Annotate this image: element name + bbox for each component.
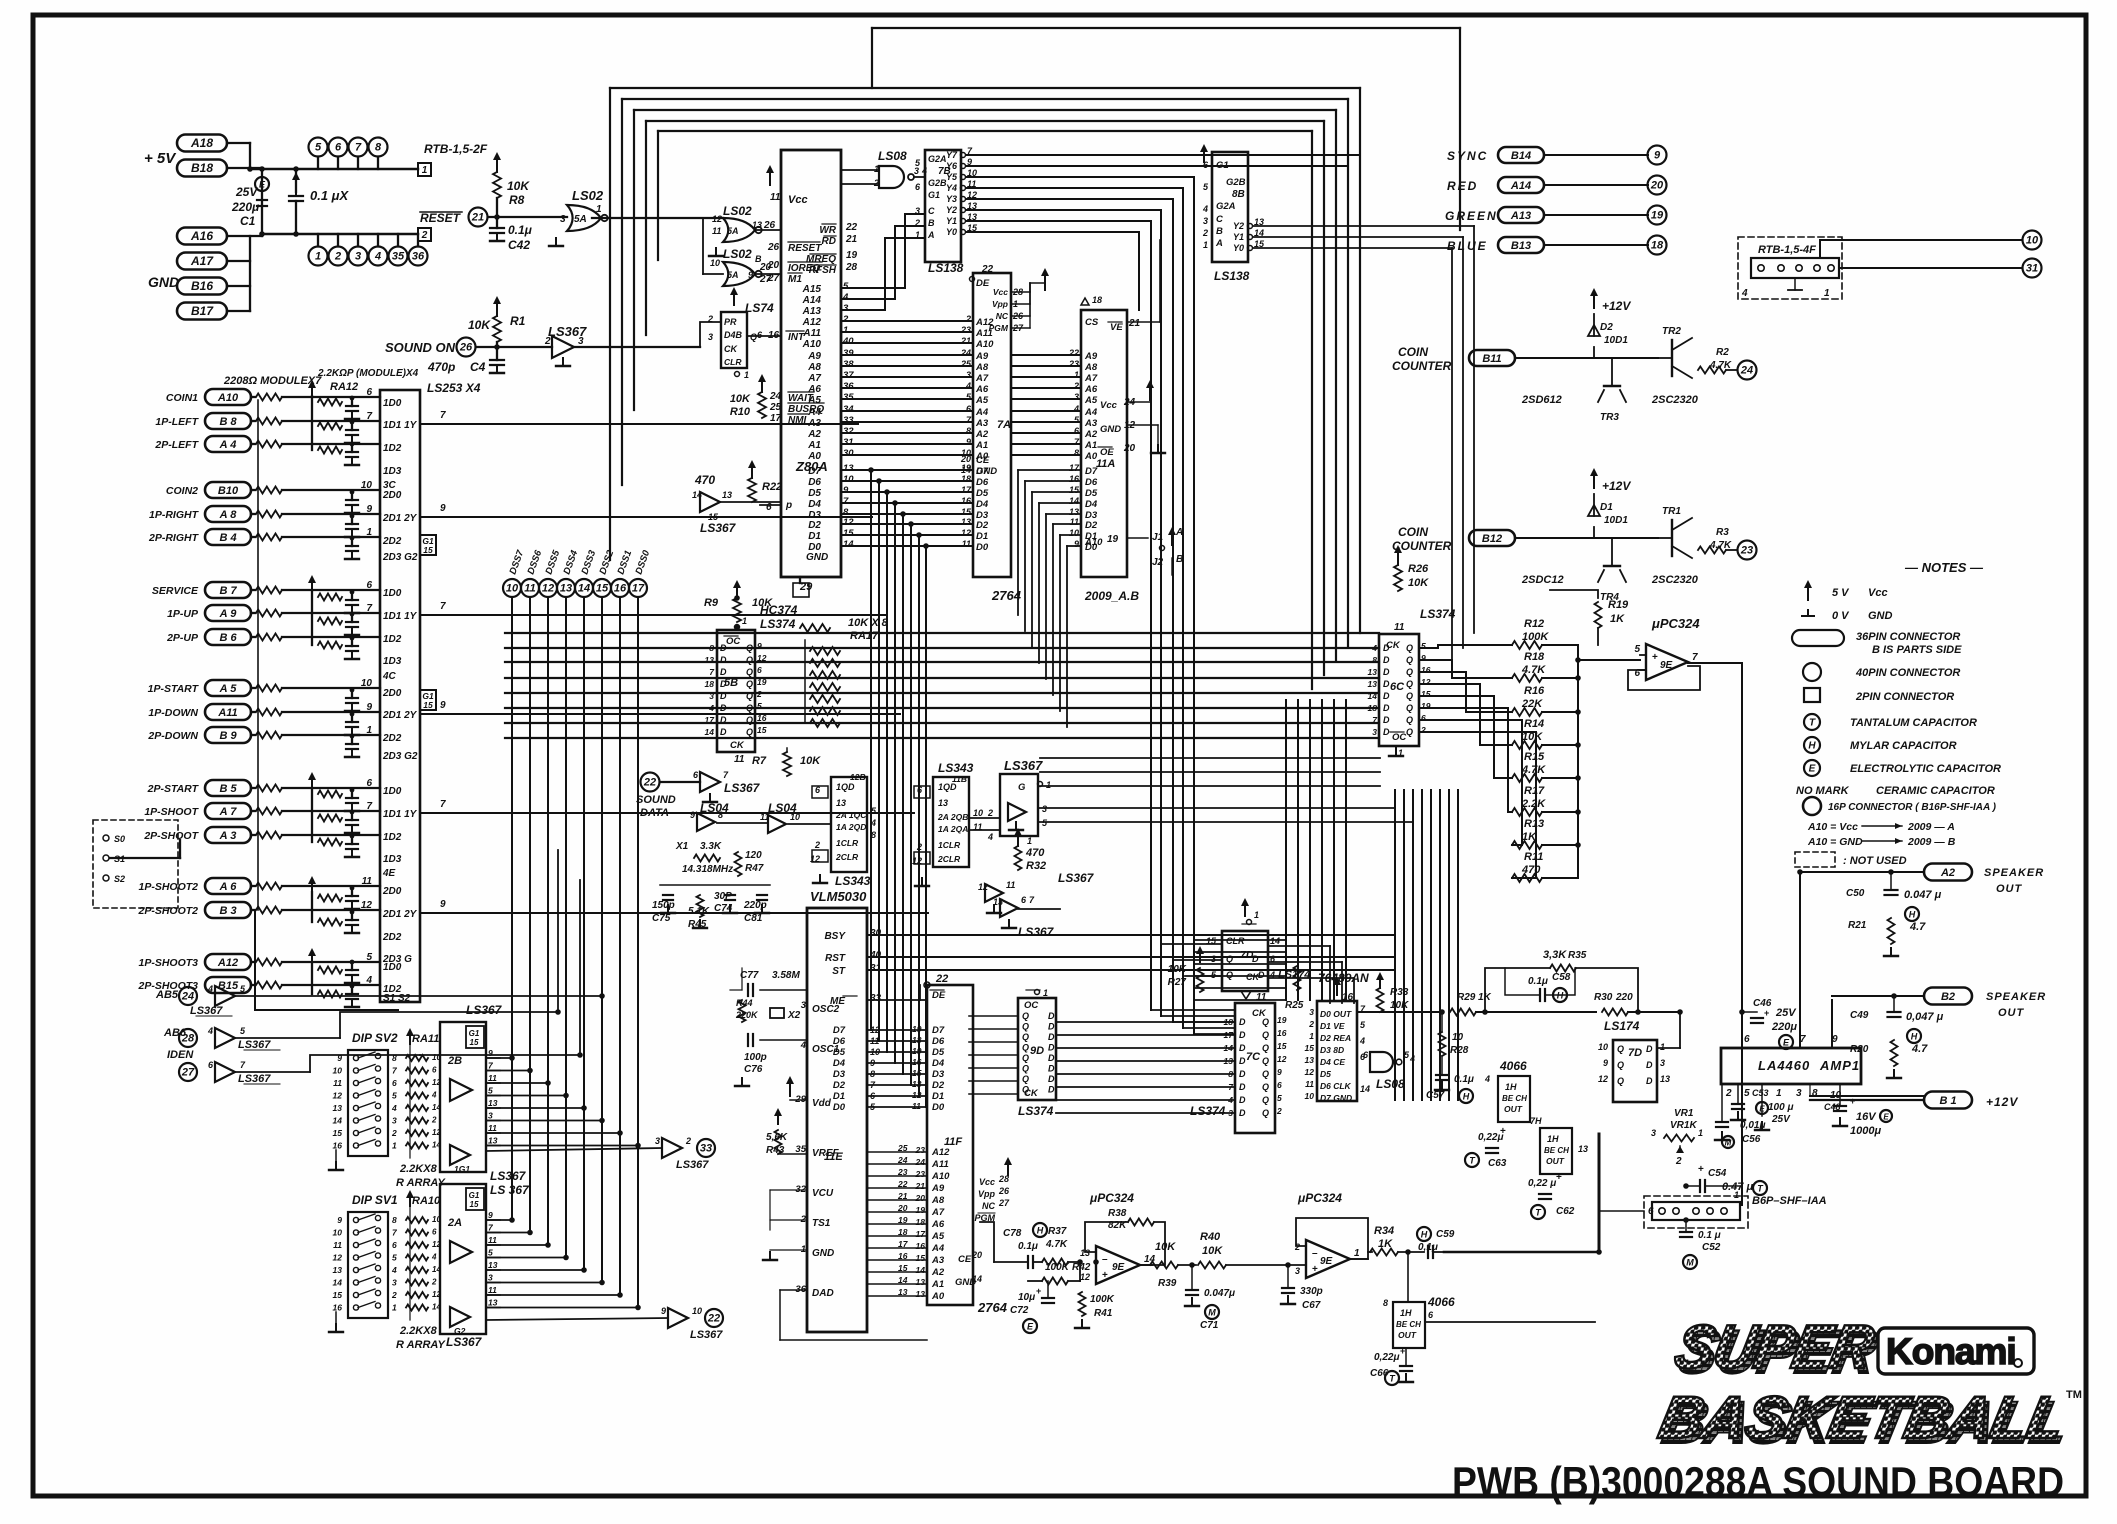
svg-text:21: 21 [845, 234, 858, 245]
svg-text:R15: R15 [1524, 751, 1545, 763]
svg-text:RD: RD [822, 236, 836, 247]
svg-text:R8: R8 [509, 193, 525, 207]
svg-text:20: 20 [915, 1193, 926, 1203]
svg-text:GND: GND [1100, 424, 1121, 435]
svg-text:6: 6 [1277, 1080, 1282, 1090]
svg-text:LS343: LS343 [835, 874, 871, 888]
svg-text:1000μ: 1000μ [1850, 1125, 1881, 1137]
svg-text:19: 19 [1107, 534, 1119, 545]
svg-text:A8: A8 [931, 1195, 945, 1206]
svg-text:8: 8 [1372, 655, 1377, 665]
svg-text:12B: 12B [850, 772, 866, 782]
svg-text:E: E [1759, 1105, 1765, 1114]
svg-text:G2B: G2B [1226, 177, 1246, 188]
svg-text:16: 16 [757, 713, 767, 723]
svg-text:TS1: TS1 [812, 1218, 831, 1229]
svg-text:36PIN CONNECTOR: 36PIN CONNECTOR [1856, 631, 1960, 643]
svg-text:C77: C77 [740, 970, 759, 981]
svg-text:Y4: Y4 [946, 183, 957, 193]
svg-text:7: 7 [355, 142, 362, 154]
svg-text:COIN1: COIN1 [166, 392, 198, 404]
svg-text:10K: 10K [1408, 577, 1429, 589]
svg-text:28: 28 [181, 1033, 195, 1045]
svg-text:B 5: B 5 [219, 783, 237, 795]
svg-text:7D: 7D [1628, 1047, 1642, 1059]
svg-text:7: 7 [440, 410, 446, 421]
svg-text:15: 15 [916, 1253, 926, 1263]
svg-text:8: 8 [709, 643, 714, 653]
svg-text:D5: D5 [1085, 488, 1098, 499]
svg-text:13: 13 [488, 1098, 498, 1108]
svg-text:18: 18 [1368, 703, 1378, 713]
svg-text:Vpp: Vpp [992, 299, 1008, 309]
svg-text:2: 2 [685, 1136, 691, 1146]
svg-text:3: 3 [966, 370, 971, 380]
svg-text:13: 13 [1578, 1144, 1588, 1154]
svg-text:C49: C49 [1850, 1010, 1869, 1021]
svg-text:Q: Q [746, 727, 753, 737]
svg-text:5A: 5A [574, 214, 587, 225]
svg-text:23: 23 [897, 1167, 908, 1177]
svg-text:150p: 150p [652, 900, 675, 911]
svg-text:D: D [1239, 1056, 1246, 1066]
svg-text:13: 13 [722, 490, 732, 500]
svg-text:— NOTES —: — NOTES — [1904, 560, 1984, 575]
svg-text:1: 1 [1776, 1088, 1782, 1099]
svg-text:G: G [1018, 782, 1026, 793]
svg-text:A0: A0 [1084, 451, 1098, 462]
svg-text:2: 2 [1276, 1106, 1282, 1116]
svg-text:A12: A12 [975, 317, 994, 328]
svg-text:0.1μ: 0.1μ [1018, 1241, 1038, 1252]
svg-text:+: + [1312, 1264, 1318, 1275]
svg-text:1P-RIGHT: 1P-RIGHT [149, 509, 200, 521]
svg-text:A10: A10 [802, 339, 822, 350]
svg-text:24: 24 [1740, 365, 1753, 377]
svg-text:C42: C42 [508, 238, 530, 252]
svg-text:D: D [720, 691, 727, 701]
svg-text:4: 4 [431, 1253, 437, 1262]
svg-text:3: 3 [1295, 1266, 1300, 1276]
svg-text:14: 14 [705, 727, 715, 737]
svg-text:4: 4 [1073, 404, 1079, 414]
svg-text:5: 5 [843, 281, 849, 292]
svg-text:D6: D6 [976, 477, 989, 488]
svg-text:25V: 25V [1775, 1007, 1797, 1019]
svg-text:D5: D5 [932, 1047, 945, 1058]
svg-text:E: E [1809, 764, 1816, 775]
svg-text:4: 4 [431, 1091, 437, 1100]
svg-text:LS367: LS367 [446, 1335, 483, 1349]
svg-text:8: 8 [1812, 1088, 1818, 1099]
svg-text:15: 15 [333, 1128, 343, 1138]
svg-text:–: – [1102, 1254, 1108, 1265]
svg-text:D2: D2 [833, 1080, 846, 1091]
svg-text:LS367: LS367 [1018, 925, 1055, 939]
svg-text:10: 10 [790, 812, 800, 822]
svg-text:0,22 μ: 0,22 μ [1528, 1178, 1556, 1189]
svg-text:COIN2: COIN2 [166, 485, 198, 497]
svg-text:TR2: TR2 [1662, 326, 1681, 337]
svg-text:9: 9 [843, 485, 849, 496]
svg-text:LS374: LS374 [1420, 607, 1456, 621]
svg-text:C: C [1216, 214, 1223, 225]
svg-text:10D1: 10D1 [1604, 515, 1628, 526]
svg-text:9: 9 [488, 1048, 493, 1058]
svg-text:D: D [1383, 679, 1390, 689]
svg-text:1: 1 [392, 1141, 397, 1151]
svg-text:CK: CK [730, 740, 745, 751]
svg-text:9: 9 [337, 1053, 342, 1063]
svg-text:C52: C52 [1702, 1242, 1721, 1253]
svg-text:4: 4 [1741, 288, 1748, 299]
svg-text:15: 15 [1206, 936, 1217, 946]
svg-text:5: 5 [757, 701, 762, 711]
svg-text:40: 40 [869, 950, 882, 961]
svg-text:15: 15 [1305, 1043, 1315, 1053]
svg-text:2SD612: 2SD612 [1521, 394, 1562, 406]
svg-text:A 9: A 9 [219, 608, 238, 620]
svg-text:R34: R34 [1374, 1225, 1394, 1237]
svg-text:11: 11 [488, 1073, 497, 1083]
svg-text:A8: A8 [807, 362, 821, 373]
svg-text:A14: A14 [802, 295, 822, 306]
svg-text:OC: OC [1024, 1000, 1038, 1011]
svg-text:C72: C72 [1010, 1305, 1029, 1316]
svg-text:D2: D2 [976, 520, 989, 531]
svg-text:CK: CK [1024, 1088, 1039, 1099]
svg-text:D1: D1 [1600, 502, 1613, 513]
svg-text:LS138: LS138 [928, 261, 964, 275]
svg-text:12: 12 [542, 583, 554, 595]
svg-text:10: 10 [2026, 235, 2039, 247]
svg-text:16: 16 [614, 583, 627, 595]
svg-text:4E: 4E [382, 868, 396, 879]
svg-text:12: 12 [361, 900, 373, 911]
svg-text:Vcc: Vcc [979, 1177, 995, 1187]
svg-text:G1: G1 [469, 1191, 480, 1200]
svg-text:18: 18 [916, 1217, 926, 1227]
svg-text:D: D [1239, 1069, 1246, 1079]
svg-text:2: 2 [965, 314, 971, 324]
svg-text:R9: R9 [704, 597, 719, 609]
svg-text:16: 16 [898, 1251, 908, 1261]
svg-text:10: 10 [361, 678, 373, 689]
svg-text:Vpp: Vpp [978, 1189, 996, 1199]
svg-text:14: 14 [578, 583, 590, 595]
svg-text:B IS PARTS SIDE: B IS PARTS SIDE [1872, 644, 1962, 656]
svg-text:D0: D0 [976, 542, 989, 553]
svg-text:1D0: 1D0 [383, 398, 402, 409]
svg-text:CK: CK [724, 344, 738, 354]
svg-text:A14: A14 [1510, 180, 1531, 192]
svg-text:9: 9 [440, 503, 446, 514]
svg-text:13: 13 [916, 1277, 926, 1287]
svg-text:1A 2QD: 1A 2QD [836, 822, 866, 832]
svg-text:A11: A11 [975, 328, 993, 339]
svg-text:1CLR: 1CLR [836, 838, 859, 848]
svg-text:9: 9 [966, 437, 971, 447]
svg-text:470p: 470p [427, 360, 455, 374]
svg-text:D: D [1383, 643, 1390, 653]
svg-text:2D2: 2D2 [382, 733, 402, 744]
svg-text:B 1: B 1 [1939, 1095, 1956, 1107]
svg-text:10D1: 10D1 [1604, 335, 1628, 346]
svg-text:22: 22 [1068, 348, 1079, 358]
svg-text:11: 11 [770, 192, 781, 203]
svg-text:D1: D1 [932, 1091, 944, 1102]
svg-text:AMP1: AMP1 [1819, 1058, 1860, 1073]
svg-text:9: 9 [440, 700, 446, 711]
svg-text:2SDC12: 2SDC12 [1521, 574, 1564, 586]
svg-text:470: 470 [1025, 847, 1045, 859]
svg-text:D6 CLK: D6 CLK [1320, 1081, 1352, 1091]
svg-text:D7: D7 [976, 466, 989, 477]
svg-text:15: 15 [898, 1263, 908, 1273]
svg-text:1: 1 [1698, 1128, 1703, 1138]
svg-text:NC: NC [996, 311, 1009, 321]
svg-text:PR: PR [724, 317, 737, 327]
svg-text:IDEN: IDEN [167, 1049, 194, 1061]
svg-text:9: 9 [366, 702, 372, 713]
svg-text:GREEN: GREEN [1445, 209, 1498, 223]
svg-text:20: 20 [1650, 180, 1664, 192]
svg-text:C59: C59 [1436, 1229, 1455, 1240]
svg-text:+12V: +12V [1602, 299, 1631, 313]
svg-text:4: 4 [365, 975, 372, 986]
svg-text:10: 10 [361, 480, 373, 491]
svg-text:DAD: DAD [812, 1288, 834, 1299]
svg-text:BSY: BSY [824, 931, 846, 942]
svg-text:BE CH: BE CH [1502, 1094, 1527, 1103]
svg-text:+12V: +12V [1602, 479, 1631, 493]
svg-text:D7 GND: D7 GND [1320, 1093, 1352, 1103]
svg-text:A12: A12 [931, 1147, 950, 1158]
svg-text:9E: 9E [1320, 1256, 1333, 1267]
svg-text:GND: GND [1868, 610, 1893, 622]
svg-text:B: B [928, 218, 935, 228]
svg-text:D: D [720, 727, 727, 737]
svg-text:14: 14 [972, 1274, 982, 1284]
svg-text:μPC324: μPC324 [1089, 1191, 1134, 1205]
svg-text:2SC2320: 2SC2320 [1651, 574, 1699, 586]
svg-text:5: 5 [1744, 1088, 1750, 1099]
svg-text:VR1K: VR1K [1670, 1120, 1697, 1131]
svg-text:2D1 2Y: 2D1 2Y [382, 909, 418, 920]
svg-text:15: 15 [596, 583, 609, 595]
svg-text:2D1 2Y: 2D1 2Y [382, 513, 418, 524]
svg-text:RTB-1,5-2F: RTB-1,5-2F [424, 142, 488, 156]
svg-text:24: 24 [915, 1157, 926, 1167]
svg-text:Q: Q [746, 703, 753, 713]
svg-text:2009 — B: 2009 — B [1907, 836, 1956, 848]
svg-text:A10: A10 [217, 392, 239, 404]
svg-text:8: 8 [718, 810, 723, 820]
svg-text:5: 5 [1277, 1093, 1282, 1103]
svg-text:120: 120 [745, 850, 762, 861]
svg-text:5: 5 [488, 1248, 493, 1258]
svg-text:2A: 2A [447, 1217, 462, 1229]
svg-text:4: 4 [391, 1265, 397, 1275]
svg-text:14: 14 [692, 490, 702, 500]
svg-text:1D3: 1D3 [383, 854, 402, 865]
svg-text:R13: R13 [1524, 818, 1544, 830]
svg-text:Q: Q [1262, 1043, 1269, 1053]
svg-text:A3: A3 [807, 418, 821, 429]
svg-text:0.1μ: 0.1μ [1528, 976, 1548, 987]
svg-text:13: 13 [488, 1136, 498, 1146]
svg-text:13: 13 [488, 1260, 498, 1270]
svg-text:R16: R16 [1524, 685, 1545, 697]
svg-text:D: D [1646, 1060, 1653, 1070]
svg-text:6: 6 [1421, 713, 1426, 723]
svg-text:10K: 10K [507, 179, 530, 193]
svg-text:33: 33 [870, 993, 882, 1004]
svg-text:12: 12 [978, 882, 988, 892]
svg-text:100K: 100K [1090, 1294, 1115, 1305]
svg-text:9: 9 [748, 270, 753, 280]
svg-text:D: D [1239, 1108, 1246, 1118]
svg-text:2: 2 [756, 689, 762, 699]
svg-text:9D: 9D [1030, 1045, 1044, 1057]
svg-text:Q: Q [1262, 1095, 1269, 1105]
svg-text:OUT: OUT [1398, 1330, 1417, 1340]
svg-text:A 6: A 6 [219, 881, 238, 893]
svg-text:1: 1 [1043, 988, 1048, 998]
svg-text:A5: A5 [975, 395, 989, 406]
svg-text:Q: Q [1262, 1030, 1269, 1040]
svg-text:D: D [1383, 667, 1390, 677]
svg-text:14: 14 [843, 539, 854, 550]
svg-text:0 V: 0 V [1832, 610, 1850, 622]
svg-text:4: 4 [1409, 1054, 1415, 1064]
svg-text:9: 9 [690, 810, 695, 820]
svg-text:NMI: NMI [788, 415, 807, 426]
svg-text:13: 13 [560, 583, 572, 595]
svg-text:17: 17 [1069, 463, 1080, 473]
svg-text:10: 10 [1305, 1091, 1315, 1101]
svg-text:3: 3 [560, 214, 566, 225]
svg-text:2208Ω MODULEX7: 2208Ω MODULEX7 [223, 375, 322, 387]
svg-text:13: 13 [488, 1298, 498, 1308]
svg-text:Q: Q [1617, 1060, 1624, 1070]
svg-text:Q: Q [1262, 1108, 1269, 1118]
svg-text:10: 10 [1452, 1032, 1464, 1043]
svg-text:2D0: 2D0 [382, 688, 402, 699]
svg-text:A12: A12 [802, 317, 822, 328]
svg-text:LS367: LS367 [1058, 871, 1095, 885]
svg-text:10K: 10K [1155, 1241, 1176, 1253]
svg-text:OSC2: OSC2 [812, 1004, 840, 1015]
svg-text:6: 6 [366, 778, 372, 789]
svg-text:21: 21 [1128, 318, 1141, 329]
svg-text:12: 12 [1277, 1054, 1287, 1064]
svg-text:19: 19 [912, 1024, 922, 1034]
svg-text:11: 11 [734, 754, 745, 765]
svg-text:1H: 1H [1400, 1308, 1412, 1318]
svg-text:Q: Q [1406, 715, 1413, 725]
svg-text:LS02: LS02 [723, 247, 752, 261]
svg-text:17: 17 [916, 1229, 927, 1239]
svg-text:+ 5V: + 5V [144, 150, 177, 167]
svg-text:D: D [1048, 1053, 1055, 1063]
svg-text:TANTALUM CAPACITOR: TANTALUM CAPACITOR [1850, 717, 1977, 729]
svg-text:3: 3 [1211, 954, 1216, 964]
svg-text:1K: 1K [1610, 613, 1625, 625]
svg-text:19: 19 [757, 677, 767, 687]
svg-text:D: D [1383, 655, 1390, 665]
svg-text:3: 3 [708, 332, 713, 342]
svg-text:D6: D6 [1085, 477, 1098, 488]
svg-text:16: 16 [912, 1057, 922, 1067]
svg-text:12: 12 [961, 528, 971, 538]
svg-text:9: 9 [1421, 653, 1426, 663]
svg-text:12: 12 [333, 1253, 343, 1263]
svg-text:C81: C81 [744, 913, 763, 924]
svg-text:24: 24 [181, 991, 194, 1003]
svg-text:LS367: LS367 [238, 1039, 271, 1051]
svg-text:2: 2 [431, 1116, 437, 1125]
svg-text:COIN: COIN [1398, 345, 1428, 359]
svg-text:5: 5 [1634, 644, 1640, 655]
svg-text:D: D [1048, 1043, 1055, 1053]
svg-text:A12: A12 [217, 957, 238, 969]
svg-text:D7: D7 [833, 1025, 846, 1036]
svg-text:13: 13 [1305, 1055, 1315, 1065]
svg-text:7: 7 [1692, 652, 1698, 663]
svg-text:+: + [1500, 1126, 1506, 1137]
svg-text:LS367: LS367 [724, 781, 761, 795]
svg-text:9: 9 [337, 1215, 342, 1225]
svg-text:1: 1 [843, 325, 848, 336]
svg-text:R26: R26 [1408, 563, 1429, 575]
svg-text:Q: Q [1022, 1043, 1029, 1053]
svg-text:20: 20 [897, 1203, 908, 1213]
svg-text:Y0: Y0 [1233, 243, 1244, 253]
svg-text:5: 5 [366, 952, 372, 963]
svg-text:E: E [1783, 1038, 1790, 1048]
svg-text:CLR: CLR [1226, 936, 1245, 946]
svg-text:A0: A0 [931, 1291, 945, 1302]
svg-text:4C: 4C [382, 671, 397, 682]
svg-text:6: 6 [1648, 1206, 1654, 1217]
svg-text:G2A: G2A [1216, 201, 1236, 212]
svg-text:40PIN CONNECTOR: 40PIN CONNECTOR [1855, 667, 1960, 679]
svg-text:1D0: 1D0 [383, 588, 402, 599]
svg-text:2CLR: 2CLR [835, 852, 859, 862]
svg-text:2: 2 [987, 808, 993, 818]
svg-text:3: 3 [1651, 1128, 1656, 1138]
svg-text:11: 11 [1070, 517, 1079, 527]
svg-text:34: 34 [843, 404, 854, 415]
svg-text:Y2: Y2 [946, 205, 957, 215]
svg-text:1: 1 [366, 527, 372, 538]
svg-text:A7: A7 [931, 1207, 945, 1218]
svg-text:Y3: Y3 [946, 194, 957, 204]
svg-text:10: 10 [973, 808, 983, 818]
svg-text:17: 17 [898, 1239, 909, 1249]
svg-text:D: D [720, 643, 727, 653]
svg-text:A11: A11 [931, 1159, 949, 1170]
svg-text:10K: 10K [752, 597, 773, 609]
svg-text:LS74: LS74 [745, 301, 774, 315]
svg-text:A4: A4 [1084, 407, 1098, 418]
svg-text:1: 1 [1734, 1190, 1739, 1200]
svg-text:D2: D2 [932, 1080, 945, 1091]
svg-text:10K: 10K [468, 318, 491, 332]
svg-text:A10: A10 [931, 1171, 950, 1182]
svg-text:D4 CE: D4 CE [1320, 1057, 1345, 1067]
